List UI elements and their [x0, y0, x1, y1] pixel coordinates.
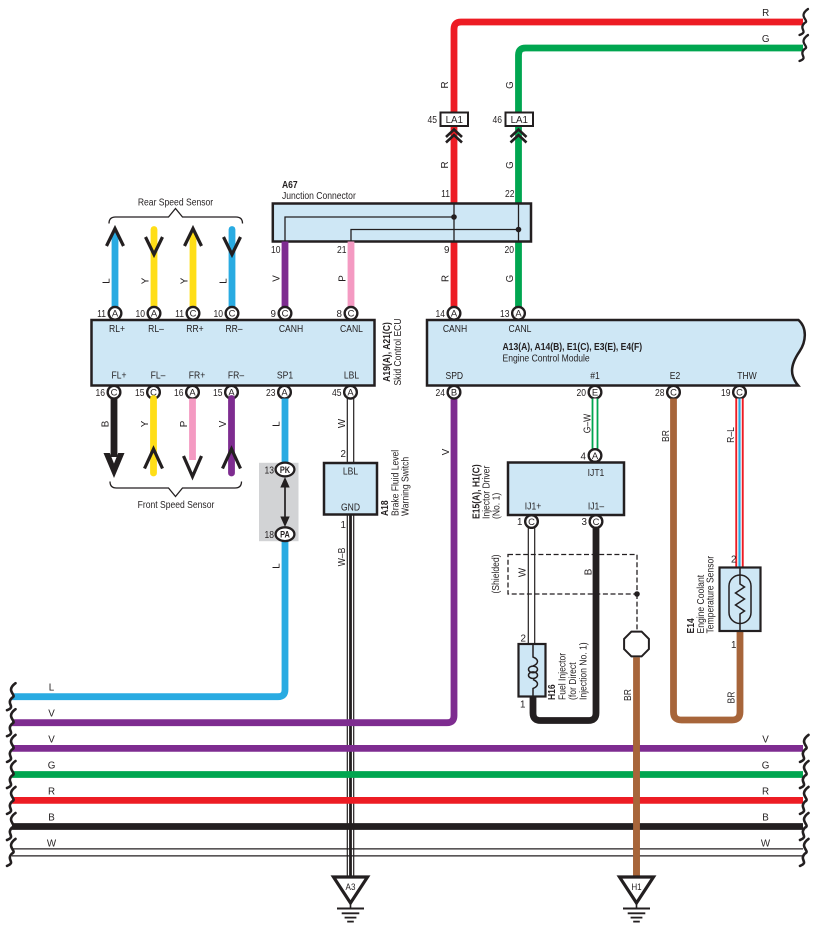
- svg-text:W: W: [518, 567, 529, 577]
- wire W from ECU 45A to A18: [346, 399, 348, 464]
- svg-text:15: 15: [213, 388, 223, 399]
- svg-text:A: A: [281, 387, 288, 398]
- svg-text:P: P: [179, 420, 190, 427]
- svg-text:P: P: [338, 275, 349, 282]
- chevrons below LA1-46: [511, 130, 527, 138]
- svg-text:23: 23: [266, 388, 276, 399]
- pin 28C E2: [667, 386, 680, 399]
- pin 16A FR+: [186, 386, 199, 399]
- svg-text:R: R: [440, 161, 451, 168]
- bus V full width: [12, 745, 803, 752]
- wire Y RL- down arrow: [151, 230, 158, 308]
- wire Y RR+ up arrow: [190, 234, 197, 308]
- svg-text:(for Direct: (for Direct: [568, 662, 579, 700]
- svg-text:IJT1: IJT1: [588, 468, 605, 479]
- wire W-B from A18 to ground A3: [346, 515, 348, 878]
- pin 11A RL+: [109, 307, 122, 320]
- svg-text:C: C: [348, 308, 355, 319]
- svg-text:A67: A67: [282, 180, 298, 191]
- svg-text:Fuel Injector: Fuel Injector: [558, 652, 569, 700]
- wire L RL+ up arrow: [112, 234, 119, 308]
- pin 45A LBL: [344, 386, 357, 399]
- svg-text:28: 28: [655, 388, 665, 399]
- pin 1C IJ1+: [525, 515, 538, 528]
- svg-text:8: 8: [337, 309, 343, 320]
- svg-text:Injection No. 1): Injection No. 1): [579, 642, 590, 700]
- connector PA (18): [276, 527, 295, 541]
- wire B IJ1- to injector low side: [533, 528, 596, 721]
- svg-text:18: 18: [265, 530, 275, 541]
- svg-text:V: V: [272, 275, 283, 282]
- wire BR over buses: [633, 740, 640, 877]
- svg-text:THW: THW: [737, 371, 757, 382]
- A67 internal wire pin21 to G bus: [351, 230, 519, 241]
- bus R full width: [12, 797, 803, 804]
- svg-text:LA1: LA1: [446, 115, 463, 126]
- svg-text:2: 2: [731, 555, 736, 566]
- svg-text:Y: Y: [141, 277, 152, 284]
- svg-text:PA: PA: [280, 530, 290, 540]
- wire BR shield to ground H1: [633, 657, 640, 877]
- wire V from ECM 24B SPD to left bus: [12, 399, 454, 723]
- svg-text:R: R: [762, 786, 769, 797]
- dashed drain line to shield symbol: [636, 594, 638, 630]
- svg-text:20: 20: [505, 245, 515, 256]
- svg-text:16: 16: [96, 388, 106, 399]
- A67 internal wire R column: [453, 205, 455, 241]
- svg-text:Warning Switch: Warning Switch: [401, 457, 412, 516]
- svg-text:10: 10: [136, 309, 146, 320]
- svg-text:R: R: [440, 81, 451, 88]
- svg-text:L: L: [49, 683, 55, 694]
- svg-text:A3: A3: [346, 882, 356, 893]
- svg-text:11: 11: [175, 309, 184, 320]
- svg-text:L: L: [219, 278, 230, 284]
- svg-text:LBL: LBL: [343, 467, 358, 478]
- torn edge wire G: [800, 35, 809, 61]
- pin 9C CANH: [279, 307, 292, 320]
- svg-text:BR: BR: [727, 692, 738, 704]
- svg-text:RR–: RR–: [225, 324, 242, 335]
- svg-text:G: G: [762, 761, 770, 772]
- bus G full width: [12, 771, 803, 778]
- svg-text:IJ1–: IJ1–: [588, 502, 604, 513]
- torn edge wire R: [800, 9, 809, 35]
- svg-text:13: 13: [500, 309, 510, 320]
- svg-text:3: 3: [582, 517, 588, 528]
- svg-text:IJ1+: IJ1+: [525, 502, 541, 513]
- wire P FR+ down arrow: [189, 399, 196, 461]
- svg-text:(No. 1): (No. 1): [492, 493, 503, 519]
- svg-text:11: 11: [97, 309, 106, 320]
- svg-text:SPD: SPD: [446, 371, 464, 382]
- svg-text:H16: H16: [547, 684, 558, 700]
- svg-text:4: 4: [581, 452, 587, 463]
- wire G-W ECM 20E to IJT1: [592, 399, 599, 450]
- svg-text:Front Speed Sensor: Front Speed Sensor: [138, 500, 215, 511]
- svg-text:B: B: [101, 420, 112, 427]
- svg-text:46: 46: [493, 115, 503, 126]
- svg-text:Engine Control Module: Engine Control Module: [503, 354, 590, 365]
- front speed sensor bracket: [110, 482, 242, 497]
- svg-text:#1: #1: [590, 371, 600, 382]
- svg-text:CANL: CANL: [340, 324, 363, 335]
- wire L RR- down arrow: [229, 230, 236, 308]
- svg-text:BR: BR: [623, 689, 634, 701]
- svg-text:Rear Speed Sensor: Rear Speed Sensor: [138, 198, 214, 209]
- svg-text:20: 20: [577, 388, 587, 399]
- engine control module box: [427, 320, 805, 386]
- svg-text:9: 9: [271, 309, 276, 320]
- pin 8C CANL: [345, 307, 358, 320]
- ground H1: [620, 877, 654, 903]
- svg-text:19: 19: [721, 388, 731, 399]
- svg-text:C: C: [736, 387, 743, 398]
- svg-text:A18: A18: [380, 500, 391, 516]
- svg-text:G: G: [505, 81, 516, 89]
- wire BR ECM 28C E2 loop to E14: [674, 399, 741, 721]
- svg-text:16: 16: [174, 388, 184, 399]
- svg-text:45: 45: [428, 115, 438, 126]
- wire B FL+ down arrow: [111, 399, 118, 458]
- svg-text:RL+: RL+: [109, 324, 125, 335]
- wire R red CAN trunk top: [454, 22, 803, 204]
- svg-text:W: W: [761, 838, 771, 849]
- wire G from A67 to ECM pin 13 CANL: [515, 242, 522, 308]
- A67 internal wire pin10 to R bus: [285, 217, 454, 241]
- svg-text:A19(A), A21(C): A19(A), A21(C): [382, 322, 393, 382]
- svg-text:C: C: [282, 308, 289, 319]
- svg-text:21: 21: [337, 245, 347, 256]
- wire W IJ1+ to injector: [527, 528, 529, 644]
- svg-text:FR–: FR–: [228, 371, 244, 382]
- svg-text:A13(A), A14(B), E1(C), E3(E),: A13(A), A14(B), E1(C), E3(E), E4(F): [503, 342, 643, 353]
- pin 13A CANL: [512, 307, 525, 320]
- svg-text:G: G: [762, 34, 770, 45]
- svg-text:V: V: [48, 709, 55, 720]
- svg-text:14: 14: [436, 309, 446, 320]
- svg-text:G–W: G–W: [583, 413, 594, 433]
- svg-text:CANH: CANH: [443, 324, 467, 335]
- svg-text:B: B: [451, 387, 457, 398]
- svg-text:10: 10: [271, 245, 281, 256]
- pin 10A RL-: [148, 307, 161, 320]
- svg-text:A: A: [451, 308, 458, 319]
- svg-text:FR+: FR+: [189, 371, 205, 382]
- svg-text:Y: Y: [140, 420, 151, 427]
- svg-text:11: 11: [441, 189, 450, 200]
- svg-text:R: R: [441, 275, 452, 282]
- svg-text:C: C: [593, 516, 600, 527]
- connector 46 LA1: [506, 113, 534, 127]
- ground A3: [334, 877, 368, 903]
- svg-text:2: 2: [521, 634, 526, 645]
- svg-text:A: A: [515, 308, 522, 319]
- svg-text:C: C: [190, 308, 197, 319]
- shielded cable dashed box: [508, 555, 637, 595]
- connector 45 LA1: [441, 113, 469, 127]
- skid control ECU A19(A),A21(C) box: [92, 320, 375, 386]
- wire L SP1 lower to bus: [12, 534, 285, 697]
- pin 20E #1: [589, 386, 602, 399]
- svg-text:Skid Control ECU: Skid Control ECU: [393, 318, 404, 385]
- svg-text:V: V: [218, 420, 229, 427]
- junction connector A67: [273, 204, 531, 242]
- svg-text:A: A: [189, 387, 196, 398]
- svg-text:E: E: [592, 387, 598, 398]
- svg-text:1: 1: [731, 640, 736, 651]
- svg-text:10: 10: [214, 309, 224, 320]
- svg-text:V: V: [762, 734, 769, 745]
- chevrons below LA1-45: [446, 130, 462, 138]
- svg-text:C: C: [670, 387, 677, 398]
- svg-text:22: 22: [505, 189, 515, 200]
- wire R-L ECM 19C THW to E14: [735, 399, 743, 568]
- wire V FR- up arrow: [228, 399, 235, 474]
- pin 11C RR+: [187, 307, 200, 320]
- svg-text:Temperature Sensor: Temperature Sensor: [706, 555, 717, 633]
- coolant temp sensor E14 box: [720, 568, 761, 632]
- svg-text:E2: E2: [670, 371, 681, 382]
- svg-text:L: L: [272, 563, 283, 569]
- svg-text:G: G: [505, 161, 516, 169]
- svg-text:A: A: [347, 387, 354, 398]
- pin 24B SPD: [448, 386, 461, 399]
- svg-text:15: 15: [135, 388, 145, 399]
- pin 15A FR-: [225, 386, 238, 399]
- torn edge L bus: [7, 683, 16, 710]
- svg-text:V: V: [441, 448, 452, 455]
- injector driver E15(A),H1(C) box: [508, 463, 624, 516]
- svg-text:24: 24: [436, 388, 446, 399]
- svg-text:CANL: CANL: [509, 324, 532, 335]
- pin 4A circle: [589, 449, 602, 462]
- rear speed sensor bracket: [109, 209, 243, 224]
- svg-text:H1: H1: [631, 882, 641, 893]
- junction dot on G: [516, 227, 522, 233]
- svg-text:C: C: [111, 387, 118, 398]
- pin 23A SP1: [278, 386, 291, 399]
- svg-text:CANH: CANH: [279, 324, 303, 335]
- wire V A67 to ECU CANH: [282, 242, 289, 308]
- gray inline connector box: [259, 463, 299, 541]
- wire P A67 to ECU CANL: [348, 242, 355, 308]
- wire G green CAN trunk top: [519, 48, 804, 204]
- svg-text:Y: Y: [180, 277, 191, 284]
- svg-text:13: 13: [265, 465, 275, 476]
- svg-text:RR+: RR+: [186, 324, 203, 335]
- svg-text:9: 9: [444, 245, 449, 256]
- wire L SP1 upper: [282, 399, 289, 470]
- svg-text:PK: PK: [280, 465, 291, 475]
- bus B full width: [12, 823, 803, 830]
- svg-text:Junction Connector: Junction Connector: [282, 191, 356, 202]
- svg-text:V: V: [48, 734, 55, 745]
- svg-text:BR: BR: [661, 430, 672, 442]
- pin 3C IJ1-: [590, 515, 603, 528]
- svg-text:LBL: LBL: [344, 371, 359, 382]
- svg-text:1: 1: [520, 700, 525, 711]
- svg-text:1: 1: [341, 520, 346, 531]
- svg-text:C: C: [528, 516, 535, 527]
- fuel injector H16 box: [519, 644, 546, 697]
- svg-text:FL+: FL+: [112, 371, 127, 382]
- E14 thermistor symbol: [739, 568, 741, 578]
- pin 19C THW: [733, 386, 746, 399]
- wire Y FL- up arrow: [150, 399, 157, 474]
- shield drain dot: [634, 591, 640, 597]
- svg-text:L: L: [272, 421, 283, 427]
- pin 15C FL-: [147, 386, 160, 399]
- svg-text:SP1: SP1: [277, 371, 293, 382]
- double arrow between PK and PA: [284, 480, 286, 524]
- shield octagon symbol: [624, 632, 649, 657]
- injector coil symbol: [533, 645, 538, 666]
- svg-text:C: C: [229, 308, 236, 319]
- svg-text:A: A: [592, 450, 599, 461]
- svg-text:W: W: [337, 418, 348, 428]
- junction dot on R: [451, 214, 457, 220]
- svg-text:R–L: R–L: [726, 427, 737, 443]
- pin 14A CANH: [448, 307, 461, 320]
- wire R from A67 to ECM pin 14 CANH: [451, 242, 458, 308]
- svg-text:B: B: [48, 813, 55, 824]
- svg-text:GND: GND: [341, 503, 360, 514]
- svg-text:LA1: LA1: [511, 115, 528, 126]
- svg-text:W: W: [47, 838, 57, 849]
- svg-text:G: G: [48, 761, 56, 772]
- svg-text:2: 2: [341, 449, 346, 460]
- torn edge V1 bus: [7, 709, 16, 736]
- svg-text:B: B: [584, 568, 595, 575]
- svg-text:(Shielded): (Shielded): [491, 554, 502, 593]
- svg-text:A: A: [112, 308, 119, 319]
- svg-text:RL–: RL–: [148, 324, 164, 335]
- brake fluid level warning switch A18 box: [324, 463, 377, 515]
- svg-text:1: 1: [517, 517, 522, 528]
- svg-text:45: 45: [332, 388, 342, 399]
- svg-text:R: R: [762, 8, 769, 19]
- svg-text:R: R: [48, 786, 55, 797]
- svg-text:L: L: [102, 278, 113, 284]
- bus W full width (white wire): [12, 848, 803, 850]
- svg-text:G: G: [505, 275, 516, 283]
- connector PK (13): [276, 463, 295, 477]
- pin 10C RR-: [226, 307, 239, 320]
- svg-text:FL–: FL–: [151, 371, 166, 382]
- svg-text:B: B: [762, 813, 769, 824]
- A67 internal wire G column: [518, 205, 520, 241]
- svg-text:A: A: [151, 308, 158, 319]
- pin 16C FL+: [108, 386, 121, 399]
- svg-text:W–B: W–B: [337, 548, 348, 567]
